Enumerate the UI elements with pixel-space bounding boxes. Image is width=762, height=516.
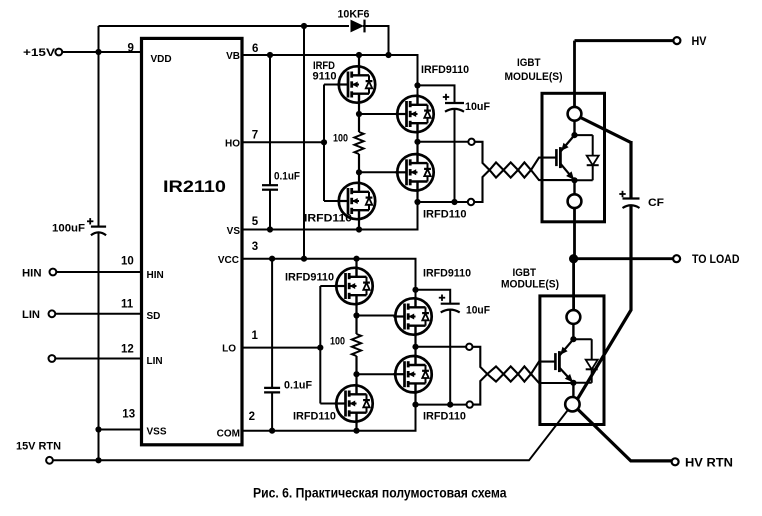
wire thick diagonal module1 top to CF bus (581, 118, 632, 143)
wire ch2 gate resistor node to right pair gates (357, 315, 405, 317)
node module2 emitter/diode (570, 380, 576, 386)
svg-text:12: 12 (121, 344, 134, 356)
svg-text:9: 9 (128, 43, 134, 55)
terminal 15V RTN (46, 457, 53, 464)
wire ch2 left cluster vertical (355, 259, 357, 431)
node VB / ch1 cluster (356, 52, 362, 58)
terminal ch2 emitter return (467, 401, 473, 407)
svg-text:15V RTN: 15V RTN (16, 441, 61, 453)
svg-text:10uF: 10uF (465, 101, 490, 113)
wire terminal to pin 12 (LIN) (56, 358, 142, 360)
svg-text:3: 3 (252, 241, 258, 253)
wire TO LOAD line (574, 257, 673, 260)
terminal LIN2 (49, 355, 56, 362)
IGBT module 2 box (540, 296, 604, 425)
wire module2 internal collector (572, 324, 574, 340)
node VB / 0.1uF (267, 52, 273, 58)
capacitor 10uF ch1 (443, 94, 464, 112)
freewheel diode module 1 (587, 135, 599, 180)
node VCC / ch2 cluster (353, 256, 359, 262)
terminal TO LOAD (673, 255, 680, 262)
svg-text:5: 5 (252, 216, 259, 228)
node module2 collector/diode (570, 336, 576, 342)
terminal LIN (49, 310, 56, 317)
svg-text:100uF: 100uF (52, 223, 85, 235)
svg-text:1: 1 (252, 330, 259, 342)
svg-text:HV: HV (692, 36, 707, 48)
wire COM pin 2 line (242, 405, 416, 431)
wire HIN terminal to pin 10 (57, 271, 142, 273)
node ch1 buffer output (414, 139, 420, 145)
svg-text:LO: LO (222, 344, 236, 355)
node ch2 10uF bottom (447, 402, 453, 408)
wire module1 bottom to TO LOAD node (573, 208, 576, 259)
svg-text:LIN: LIN (147, 356, 163, 367)
capacitor 0.1uF ch2 plates (264, 388, 280, 393)
node module1 collector/diode (571, 132, 577, 138)
svg-text:HV RTN: HV RTN (685, 457, 733, 469)
wire +15V to VDD pin 9 (62, 51, 142, 53)
wire left vertical rail x=98 (98, 26, 100, 460)
transistor Q4 IRFD110 (ch1 right bottom) (395, 153, 433, 192)
wire ch2 right cluster vertical (414, 299, 416, 405)
svg-text:IR2110: IR2110 (163, 177, 226, 196)
svg-text:13: 13 (122, 408, 135, 420)
node VCC / 0.1uF ch2 (269, 256, 275, 262)
wire ch2 10uF branch (416, 290, 451, 405)
terminal HIN (50, 269, 57, 276)
node ch1 10uF bottom (451, 199, 457, 205)
node ch2 upper gate node (353, 312, 359, 318)
node module1 emitter/diode (571, 177, 577, 183)
terminal HV RTN (672, 458, 679, 465)
svg-text:IRFD9110: IRFD9110 (423, 268, 471, 280)
wire CF bus vertical lower + diagonal to module2 emitter (576, 206, 631, 402)
wire module1 internal collector (573, 120, 575, 135)
node ch1 upper gate node (356, 111, 362, 117)
svg-text:LIN: LIN (22, 309, 40, 321)
module2 bottom screw terminal (565, 397, 579, 411)
svg-text:VS: VS (227, 226, 241, 237)
wire HV bus down to module 1 (573, 41, 576, 108)
transistor Q1 IRFD9110 (ch1 left top) (337, 65, 375, 104)
svg-text:HIN: HIN (22, 267, 42, 279)
svg-text:VDD: VDD (151, 54, 172, 65)
wire ch1 buffer output to terminal (418, 141, 472, 143)
wire ch1 left cluster vertical (drain chain) (358, 55, 360, 230)
svg-text:2: 2 (249, 411, 255, 423)
svg-text:HIN: HIN (147, 270, 164, 281)
wire ch1 bottom rail to terminal (418, 201, 472, 203)
node HO gate bus (321, 139, 327, 145)
node VS / 0.1uF (267, 226, 273, 232)
capacitor 0.1uF (ch2) branch (271, 259, 273, 431)
svg-text:0.1uF: 0.1uF (284, 380, 312, 392)
svg-text:TO LOAD: TO LOAD (692, 254, 740, 266)
node ch1 lower gate node (356, 169, 362, 175)
svg-text:11: 11 (121, 298, 134, 310)
svg-text:9110: 9110 (313, 71, 337, 83)
IGBT Q module 1 (556, 135, 574, 180)
node top rail / VCC vertical (301, 23, 307, 29)
module1 bottom screw terminal (568, 194, 582, 208)
op-amp U1 IR2110 driver IC box (142, 38, 243, 444)
svg-text:MODULE(S): MODULE(S) (501, 279, 559, 291)
wire CF bus vertical upper (629, 141, 632, 199)
svg-text:IGBT: IGBT (517, 57, 541, 69)
terminal ch1 gate output (468, 139, 474, 145)
svg-text:HO: HO (225, 139, 240, 150)
svg-text:+15V: +15V (23, 47, 56, 59)
svg-text:IGBT: IGBT (513, 267, 537, 279)
terminal ch2 gate output (466, 344, 472, 350)
wire module2 emitter to HV RTN (578, 409, 672, 461)
node VCC / vertical (301, 256, 307, 262)
twisted pair ch2 to module2 (469, 347, 573, 405)
svg-text:IRFD110: IRFD110 (423, 411, 466, 423)
node ch2 10uF branch (412, 287, 418, 293)
wire 15V RTN bottom return line (53, 404, 572, 460)
wire VB pin 6 node line (242, 55, 418, 96)
svg-text:IRFD110: IRFD110 (304, 213, 352, 225)
svg-text:IRFD110: IRFD110 (293, 411, 336, 423)
terminal HV (673, 37, 680, 44)
wire ch2 bottom rail to terminal (416, 404, 470, 406)
capacitor 0.1uF ch1 plates (262, 185, 278, 190)
node ch2 buffer output (412, 344, 418, 350)
svg-text:SD: SD (147, 311, 161, 322)
wire module1 internal emitter to bottom terminal (573, 180, 575, 195)
module2 top screw terminal (567, 310, 581, 324)
svg-text:100: 100 (333, 133, 348, 145)
transistor Q5 IRFD9110 (ch2 left top) (334, 266, 372, 305)
svg-text:MODULE(S): MODULE(S) (505, 71, 563, 83)
node LO gate bus (317, 345, 323, 351)
wire LO pin 1 line (242, 347, 320, 349)
node ch2 lower gate node (353, 371, 359, 377)
wire VCC pin 3 line (242, 259, 416, 299)
svg-text:VB: VB (226, 51, 240, 62)
wire ch1 gate resistor node to right pair gates (359, 113, 407, 115)
wire HO gate bus vertical (324, 85, 348, 202)
IGBT Q module 2 (555, 339, 573, 382)
transistor Q8 IRFD110 (ch2 right bottom) (393, 355, 431, 394)
wire top +15V rail (VDD bus) (99, 25, 350, 27)
node 15V RTN / rail (95, 457, 101, 463)
svg-text:VCC: VCC (218, 255, 239, 266)
svg-text:IRFD9110: IRFD9110 (285, 272, 334, 284)
svg-text:10KF6: 10KF6 (338, 9, 370, 21)
terminal +15V (55, 49, 62, 56)
wire diode cathode to VB node (363, 26, 389, 55)
node VSS / rail (95, 426, 101, 432)
wire VS pin 5 line (242, 202, 418, 230)
capacitor 10uF ch2 (439, 295, 460, 313)
capacitor 100uF (VDD filter) (87, 218, 106, 235)
terminal ch1 emitter return (468, 199, 474, 205)
wire VCC vertical from top rail (303, 26, 305, 259)
IGBT module 1 box (542, 93, 605, 222)
wire ch2 buffer output to terminal (416, 346, 470, 348)
transistor Q7 IRFD9110 (ch2 right top) (393, 297, 431, 336)
node VB / bootstrap diode (385, 52, 391, 58)
transistor Q3 IRFD9110 (ch1 right top) (395, 94, 433, 133)
resistor 100 (ch2 gate) (352, 334, 361, 356)
svg-text:10: 10 (121, 256, 134, 268)
svg-text:0.1uF: 0.1uF (274, 171, 300, 183)
svg-text:6: 6 (252, 43, 258, 55)
node COM / ch2 left cluster (353, 428, 359, 434)
node ch2 bottom rail corner (412, 402, 418, 408)
node ch1 bottom rail corner (414, 199, 420, 205)
wire TO LOAD node down to module 2 (572, 259, 575, 311)
node +15V / rail junction (95, 49, 101, 55)
wire HV line to terminal (575, 39, 674, 42)
svg-text:100: 100 (330, 336, 345, 348)
svg-text:IRFD110: IRFD110 (423, 209, 467, 221)
svg-text:COM: COM (217, 429, 240, 440)
wire VSS pin 13 to left rail (99, 429, 142, 431)
transistor Q6 IRFD110 (ch2 left bottom) (334, 384, 372, 423)
node VS / ch1 left cluster (356, 226, 362, 232)
freewheel diode module 2 (586, 339, 598, 383)
svg-text:VSS: VSS (147, 427, 167, 438)
resistor 100 (ch1 gate) (354, 132, 363, 154)
svg-text:10uF: 10uF (466, 305, 490, 317)
svg-text:Рис. 6. Практическая полумосто: Рис. 6. Практическая полумостовая схема (253, 486, 507, 501)
svg-text:CF: CF (648, 197, 664, 209)
wire module2 internal emitter (572, 383, 574, 398)
twisted pair ch1 to module1 (472, 142, 575, 202)
capacitor CF (HV filter) (619, 191, 639, 208)
node TO LOAD junction (569, 254, 578, 263)
wire ch1 right cluster vertical (totem) (416, 96, 418, 202)
wire ch1 10uF branch (418, 85, 455, 202)
svg-text:7: 7 (252, 130, 258, 142)
node COM / 0.1uF ch2 (269, 428, 275, 434)
wire HO pin 7 line (242, 141, 324, 143)
wire LIN terminal to pin 11 (SD) (56, 313, 142, 315)
svg-text:IRFD9110: IRFD9110 (421, 64, 469, 76)
module1 top screw terminal (568, 107, 582, 121)
capacitor 0.1uF (ch1 bootstrap) branch (269, 55, 271, 230)
node ch1 10uF branch (414, 82, 420, 88)
transistor Q2 IRFD110 (ch1 left bottom) (337, 181, 375, 220)
wire LO gate bus vertical (320, 286, 345, 404)
diode 10KF6 (bootstrap) (351, 20, 365, 33)
